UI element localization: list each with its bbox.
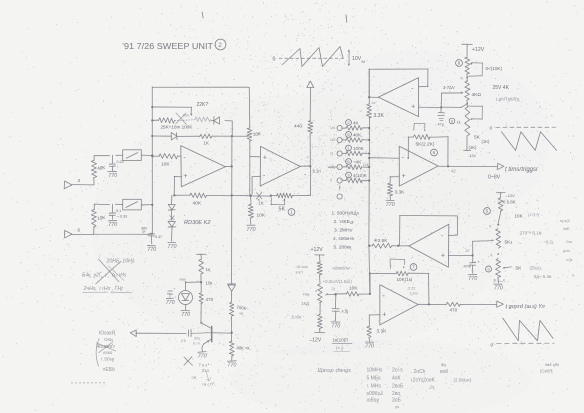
resistor 10K (rowD ground leg) <box>248 196 253 225</box>
label 3.3K bus <box>374 113 385 119</box>
svg-text:6.١٩: 6.١٩ <box>193 342 200 346</box>
label 10K (right) <box>515 213 540 219</box>
junction pot a <box>461 77 469 81</box>
svg-text:↓: ↓ <box>117 165 119 169</box>
resistor 3.3K (U4 plus) <box>387 183 392 196</box>
svg-text:2.ѕʏѕ: 2.ѕʏѕ <box>410 292 419 296</box>
svg-text:0<(10K): 0<(10K) <box>486 66 503 71</box>
svg-text:3.3K: 3.3K <box>377 329 388 335</box>
label 2.22 <box>408 287 418 296</box>
resistor 10K (right rail) <box>247 128 252 141</box>
svg-text:10K: 10K <box>161 162 170 168</box>
svg-text:ʌѕко: ʌѕко <box>103 350 113 355</box>
freq note underline <box>83 291 132 294</box>
label 3.3K U6 <box>377 329 388 335</box>
baseline dashed (bottom sawtooth) <box>497 342 555 344</box>
svg-text:40K̭ <к: 40K̭ <к <box>237 346 250 351</box>
svg-text:2оБ: 2оБ <box>392 398 402 404</box>
junction Q1 base rail <box>231 332 233 334</box>
resistor 6.8K <box>498 193 503 225</box>
wire main bus upper <box>368 69 370 105</box>
baseline dashed (top sawtooth) <box>279 57 346 59</box>
svg-text:ОѕЬ: ОѕЬ <box>104 337 113 342</box>
junction rowC-rail <box>231 135 233 137</box>
resistor 3.9K (bus to U5) <box>369 243 398 248</box>
junction out pot mid <box>490 253 499 257</box>
svg-text:+: + <box>263 154 267 161</box>
wiper arrow 3-7V <box>441 92 463 108</box>
wire input6 row <box>71 233 151 235</box>
svg-text:1. 500Н̭ѕ/Щ̭ʌ: 1. 500Н̭ѕ/Щ̭ʌ <box>332 211 360 217</box>
wire U4 output <box>439 165 498 167</box>
resistor 40K (U1 feedback) <box>190 193 207 198</box>
waveform label 0 (bottom) <box>491 343 494 349</box>
label 10K rowD <box>257 213 266 219</box>
svg-text:✳3.9K: ✳3.9K <box>374 238 389 244</box>
label 5K 1K <box>474 135 490 145</box>
junction U4 out <box>447 165 449 167</box>
rotary switch contact 5 with resistor <box>330 178 370 183</box>
svg-text:+: + <box>402 173 406 180</box>
svg-text:+: + <box>382 311 386 318</box>
svg-text:440: 440 <box>294 124 302 130</box>
label 5K 2.2K <box>416 142 435 148</box>
svg-text:4-: 4- <box>490 253 493 257</box>
divider wire b <box>315 289 320 314</box>
junction rowA <box>151 106 153 108</box>
waveform label 0 (right) <box>490 126 493 132</box>
svg-text:6: 6 <box>433 150 436 155</box>
wire 440 riser <box>292 88 310 196</box>
label range resistor 4 <box>346 159 363 165</box>
wire left rail <box>151 87 153 235</box>
svg-text:2.22: 2.22 <box>408 287 415 291</box>
label LENTY <box>496 97 520 103</box>
svg-text:770: 770 <box>365 344 374 350</box>
ground (Q1 emitter) <box>198 352 207 360</box>
wire U3 plus out <box>419 106 442 108</box>
svg-text:770: 770 <box>181 312 190 318</box>
wire rowB to corner <box>225 121 232 137</box>
label 9-6.4V <box>534 274 576 280</box>
label 0.1-0.33 <box>116 209 127 219</box>
svg-text:47μ: 47μ <box>438 123 444 127</box>
svg-text:+: + <box>183 173 187 180</box>
svg-text:t̖ tіmѕrtrіǥǥѕr: t̖ tіmѕrtrіǥǥѕr <box>505 167 539 173</box>
scribble x between zeners <box>170 216 175 220</box>
resistor 100K rowB faint <box>195 117 210 122</box>
circled 8 <box>456 60 463 67</box>
zener D4 RD30E <box>168 221 176 227</box>
wire U4 plus leg <box>390 177 399 183</box>
power -12V (pot chain) <box>463 150 475 158</box>
pot P5 5K <box>496 258 501 277</box>
svg-text:+12V: +12V <box>311 247 324 253</box>
label to gate out <box>505 304 545 310</box>
svg-text:0: 0 <box>491 343 494 349</box>
op-amp U5 <box>409 224 449 267</box>
wire rowD to pot5K <box>253 195 271 197</box>
svg-text:0.47: 0.47 <box>155 235 162 239</box>
svg-text:10K: 10K <box>257 213 266 219</box>
svg-text:770: 770 <box>227 363 236 369</box>
svg-text:770: 770 <box>247 227 256 233</box>
svg-text:~0.2ʟ: ~0.2ʟ <box>544 240 554 245</box>
svg-text:4оК: 4оК <box>392 376 401 382</box>
svg-text:2: 2 <box>218 42 222 49</box>
label max <box>180 278 187 282</box>
svg-text:47ʍ: 47ʍ <box>464 264 471 269</box>
svg-text:9.1n: 9.1n <box>313 169 322 174</box>
wire pot chain c <box>466 136 468 151</box>
label 25V 4K <box>493 85 510 91</box>
resistor 10K (U1 input) <box>153 153 182 158</box>
label 9.1n <box>313 169 322 174</box>
label H2 mark <box>333 266 351 271</box>
label range resistor 1 <box>346 120 360 126</box>
svg-text:тӣө: тӣө <box>303 293 309 297</box>
ground (zener stack) <box>168 242 177 250</box>
svg-text:1e1: 1e1 <box>330 126 336 130</box>
resistor 100K (rail) <box>229 302 234 316</box>
label 4v <box>372 101 376 105</box>
ground (U5 cap) <box>468 275 477 283</box>
circled 1 <box>288 209 295 216</box>
label Blank OSC <box>96 331 116 374</box>
label +12V <box>472 47 485 53</box>
svg-text:(25ʋɹ): (25ʋɹ) <box>530 266 542 271</box>
analog switch SW2 <box>123 199 142 210</box>
junction U3 node <box>440 106 442 108</box>
svg-text:4-: 4- <box>489 225 492 229</box>
svg-text:2о١ѕ: 2о١ѕ <box>392 368 403 374</box>
wire right rail upper <box>248 87 251 128</box>
pot X 1K marks <box>256 193 263 206</box>
svg-text:770: 770 <box>108 173 117 179</box>
svg-text:770: 770 <box>331 324 340 330</box>
dotted line (bottom left) <box>72 382 106 384</box>
label RD30E K2 <box>184 220 211 226</box>
wire LED to gnd <box>185 304 187 309</box>
label 4K alt <box>469 145 478 150</box>
label AT <box>466 249 470 253</box>
svg-text:770: 770 <box>108 222 117 228</box>
wire zener stack top <box>171 195 173 204</box>
ground (input6 cap) <box>108 221 117 229</box>
pot P4 5K <box>496 229 501 248</box>
label 10K LED <box>206 281 213 286</box>
svg-text:770: 770 <box>386 202 395 208</box>
svg-text:2во̭: 2во̭ <box>392 391 401 397</box>
resistor 5K 2.2K (U4 fb) <box>408 134 448 139</box>
svg-text:10V: 10V <box>352 56 362 62</box>
freq note line3 <box>83 285 124 292</box>
svg-text:61о: 61о <box>202 368 210 373</box>
ground (rail cap) <box>147 246 156 254</box>
svg-text:(1K): (1K) <box>482 139 491 144</box>
capacitor 0.22 (input 3) <box>109 155 115 171</box>
junction U5 plus <box>471 254 473 256</box>
capacitor 47u (U5) <box>469 256 476 274</box>
registration tick top-center <box>345 15 348 22</box>
svg-text:–12V: –12V <box>310 338 322 344</box>
ground (divider cap) <box>331 322 340 330</box>
pot P4 wiper <box>481 239 494 241</box>
svg-text:7ok: 7ok <box>363 163 369 167</box>
svg-text:1к(10)ה̇: 1к(10)ה̇ <box>333 338 349 343</box>
label 1m .33 <box>202 382 216 387</box>
capacitor 47u (U3 node) <box>438 107 445 120</box>
svg-text:ɔσЁ: ɔσЁ <box>563 227 570 231</box>
resistor 5K pot <box>271 193 293 198</box>
capacitor (LED left) <box>167 287 176 297</box>
power +12V symbol <box>462 44 473 56</box>
label 3.9K <box>374 238 389 244</box>
junction U1 out rail <box>231 165 233 167</box>
svg-text:ЮɔакЯ̭: ЮɔакЯ̭ <box>99 331 116 337</box>
wire pot chain b <box>466 100 468 107</box>
label 3.3K U4 <box>395 190 406 196</box>
diode D1 rowB (left) <box>211 117 219 125</box>
svg-text:کѕ̭: کѕ̭ <box>429 385 436 390</box>
top sawtooth waveform <box>283 47 344 67</box>
svg-text:10K(1к): 10K(1к) <box>397 277 413 282</box>
svg-text:25V 4K: 25V 4K <box>493 85 510 91</box>
resistor 10K (U6 input) <box>335 291 369 296</box>
op-amp U4 <box>399 146 438 186</box>
svg-text:Cѕʌ: Cѕʌ <box>566 240 572 244</box>
ground (out pots) <box>494 277 503 291</box>
label 42 <box>451 169 456 174</box>
svg-text:ҫѕ: ҫѕ <box>395 404 399 409</box>
rotary switch contact 3 with resistor <box>330 151 370 156</box>
wire main bus mid <box>368 118 371 246</box>
registration tick top-left <box>202 12 203 18</box>
wire main bus lower <box>368 246 371 294</box>
svg-text:μʌm: μʌm <box>563 249 570 253</box>
svg-text:25K+10m 100K: 25K+10m 100K <box>161 125 194 130</box>
svg-text:5K: 5K <box>279 207 286 213</box>
wire LED branch <box>185 282 200 291</box>
wire U6 output <box>418 303 446 305</box>
svg-text:ΔΤ: ΔΤ <box>466 249 470 253</box>
wire U4 minus input <box>369 157 399 160</box>
svg-text:40K: 40K <box>353 133 362 138</box>
wire U1 plus drop <box>174 176 182 195</box>
wire to Q1 collector <box>201 304 211 329</box>
svg-text:(1?1?): (1?1?) <box>528 213 540 217</box>
wire LED chain <box>200 274 202 292</box>
svg-text:(СѕКЯ̭։: (СѕКЯ̭։ <box>540 369 553 374</box>
svg-text:0: 0 <box>490 126 493 132</box>
circled 9b <box>486 266 492 272</box>
wire U3 node to pot chain <box>441 104 466 108</box>
label 4KOhm <box>472 92 482 98</box>
svg-text:5. 200кѕ̭: 5. 200кѕ̭ <box>334 245 353 251</box>
output arrow (timer) <box>498 163 504 169</box>
svg-text:١2ѕҮѕ̭2ооК: ١2ѕҮѕ̭2ооК <box>410 378 435 384</box>
scribble X rowB <box>176 113 187 124</box>
capacitor 0.1/0.47 at rail bottom <box>148 233 154 244</box>
svg-text:3.3K: 3.3K <box>374 113 385 119</box>
label 0-8V <box>488 175 501 181</box>
wire U2 minus L <box>252 176 261 194</box>
label 40K U1 <box>193 201 202 207</box>
label +0.25V <box>323 279 353 284</box>
svg-text:RD30E K2: RD30E K2 <box>184 220 211 226</box>
svg-text:н2мнѕ/ʌѵ: н2мнѕ/ʌѵ <box>333 266 351 271</box>
svg-text:3.3K: 3.3K <box>395 190 406 196</box>
svg-text:мак̭: мак̭ <box>180 278 187 282</box>
resistor 10K 1K (U6 fb) <box>370 271 429 276</box>
op-amp U2 <box>260 146 300 186</box>
resistor 1K (LED chain) <box>199 259 204 274</box>
scribble X over 2N2646 <box>96 342 116 353</box>
svg-text:ѕ00Кѕػ: ѕ00Кѕػ <box>367 391 383 397</box>
svg-text:Ԁ: Ԁ <box>315 289 317 293</box>
wire zener mid <box>170 210 172 221</box>
svg-text:5: 5 <box>486 209 489 214</box>
transistor Q1 base wire <box>211 332 231 334</box>
analog switch SW1 <box>123 150 142 161</box>
junction pot5K left <box>270 195 272 197</box>
power bar (LED chain) <box>197 254 206 259</box>
svg-text:ɗʎ кок: ɗʎ кок <box>297 264 308 269</box>
label range resistor 3 <box>346 145 365 151</box>
junction U6 minus <box>369 293 371 295</box>
svg-text:(2.5КЬԟ): (2.5КЬԟ) <box>454 378 472 383</box>
junction bus U4 <box>368 157 370 159</box>
svg-text:470: 470 <box>206 297 214 302</box>
wire rail bottom <box>231 356 233 360</box>
power -12V symbol (right) <box>496 192 515 198</box>
junction rowC <box>151 135 153 137</box>
wire input3 to R40K <box>72 184 94 186</box>
resistor 470 (LED chain) <box>199 293 203 304</box>
label 1K rowC <box>204 141 209 146</box>
svg-text:Фѕ: Фѕ <box>441 363 446 368</box>
wire contact4 stub <box>328 166 337 168</box>
wire U4 plus gnd <box>389 196 391 200</box>
wire blank output <box>136 332 186 334</box>
label 10K U1 <box>161 162 170 168</box>
pot loop U6 fb <box>390 259 405 269</box>
capacitor 0.33 (input 6) <box>109 204 116 219</box>
wire top edge <box>152 86 248 88</box>
U3 feedback loop <box>369 69 428 97</box>
margin scribble 1 <box>560 219 570 223</box>
wire pot chain a <box>466 74 468 82</box>
label 3-7dV <box>443 85 455 90</box>
circled 7 <box>410 264 417 271</box>
svg-text:Щвѕѕр Ժанǥѕ: Щвѕѕр Ժанǥѕ <box>318 368 352 374</box>
svg-text:LɡNΤɣש/(ѕ̭.: LɡNΤɣש/(ѕ̭. <box>496 97 520 103</box>
freq note line1 <box>106 259 135 265</box>
svg-text:Б4к̭, ջ2Ѓ̭, ؞̭ ١о.١וНѕ: Б4к̭, ջ2Ѓ̭, ؞̭ ١о.١וНѕ <box>82 272 127 279</box>
svg-text:5K(2.2K): 5K(2.2K) <box>416 142 435 148</box>
amplitude arrow (top sawtooth) <box>348 50 350 67</box>
ground (U6 plus) <box>365 342 374 350</box>
label 10K 1K fb <box>397 277 413 282</box>
diode D2 rowC (right) <box>171 133 177 140</box>
label 470 LED <box>206 297 214 302</box>
svg-text:9д~ 6.4ɴ: 9д~ 6.4ɴ <box>534 274 552 279</box>
svg-text:100K: 100K <box>353 146 365 151</box>
svg-text:1КД: 1КД <box>301 301 309 306</box>
divider wire a <box>319 275 321 284</box>
capacitor (Q1 base) <box>189 329 212 336</box>
label 5K 10K <box>296 264 308 275</box>
label 1.5u <box>342 309 349 314</box>
op-amp U1 <box>181 146 226 187</box>
ground (input3 cap) <box>108 171 117 179</box>
label 40K input3 <box>97 165 107 171</box>
svg-text:ѵԒѕ: ѵԒѕ <box>566 258 573 262</box>
svg-text:M: M <box>362 59 365 64</box>
label 10V M <box>352 56 365 64</box>
svg-text:+: + <box>411 103 415 110</box>
wire input6 top row <box>94 203 122 205</box>
wire zener bottom <box>170 227 173 241</box>
wire right rail lower <box>249 141 251 196</box>
ground (rowD leg) <box>247 225 256 233</box>
svg-text:470: 470 <box>450 308 458 313</box>
svg-text:10K: 10K <box>253 131 263 137</box>
zener D3 RD30E <box>168 204 175 210</box>
svg-text:+: + <box>441 253 445 260</box>
svg-text:4KΩ: 4KΩ <box>472 92 482 98</box>
freq note line2 <box>82 272 127 279</box>
junction rail base <box>231 332 233 334</box>
pot P5 wiper <box>503 267 512 269</box>
svg-text:0: 0 <box>273 57 276 63</box>
svg-text:ϳ+5: ϳ+5 <box>180 339 186 343</box>
svg-text:ɜте˘ї: ɜте˘ї <box>296 271 303 275</box>
ground (LED left cap) <box>166 298 175 306</box>
wire rowC lead <box>152 135 171 137</box>
junction U2 out <box>309 165 311 167</box>
junction U6 fb <box>369 273 371 275</box>
wire rowC right <box>212 135 248 137</box>
svg-text:42: 42 <box>451 169 456 174</box>
wire discharge rail <box>231 136 233 282</box>
junction SW2-rail <box>151 204 153 206</box>
svg-text:7: 7 <box>412 265 415 270</box>
svg-text:1: 1 <box>290 210 293 215</box>
resistor 40K (rail) <box>229 341 234 356</box>
svg-text:t̖ ǥо̭ѕrd (аʟѕ̖) Үл: t̖ ǥо̭ѕrd (аʟѕ̖) Үл <box>505 304 545 310</box>
svg-text:5K: 5K <box>516 266 523 272</box>
resistor 3.3K (U6 plus) <box>367 326 372 337</box>
resistor 1K rowC <box>200 134 212 139</box>
title circled 2 <box>215 39 226 50</box>
svg-text:~4K: ~4K <box>353 160 362 165</box>
svg-text:5 МБѕ: 5 МБѕ <box>367 376 382 382</box>
margin scribble 4 <box>563 249 570 253</box>
svg-text:4K: 4K <box>353 121 360 126</box>
junction Q1 collector <box>200 322 202 324</box>
input terminal 3 arrow <box>64 178 80 189</box>
svg-text:1s2: 1s2 <box>330 138 336 142</box>
label -12V divider <box>310 338 322 344</box>
label 22K <box>197 102 209 108</box>
svg-text:10K: 10K <box>349 286 358 292</box>
wire U5 plus riser <box>472 241 481 255</box>
pot P2 4K <box>465 81 470 100</box>
margin scribble 5 <box>566 258 573 262</box>
label trim mark <box>301 293 309 307</box>
label 40K rail <box>237 346 250 351</box>
